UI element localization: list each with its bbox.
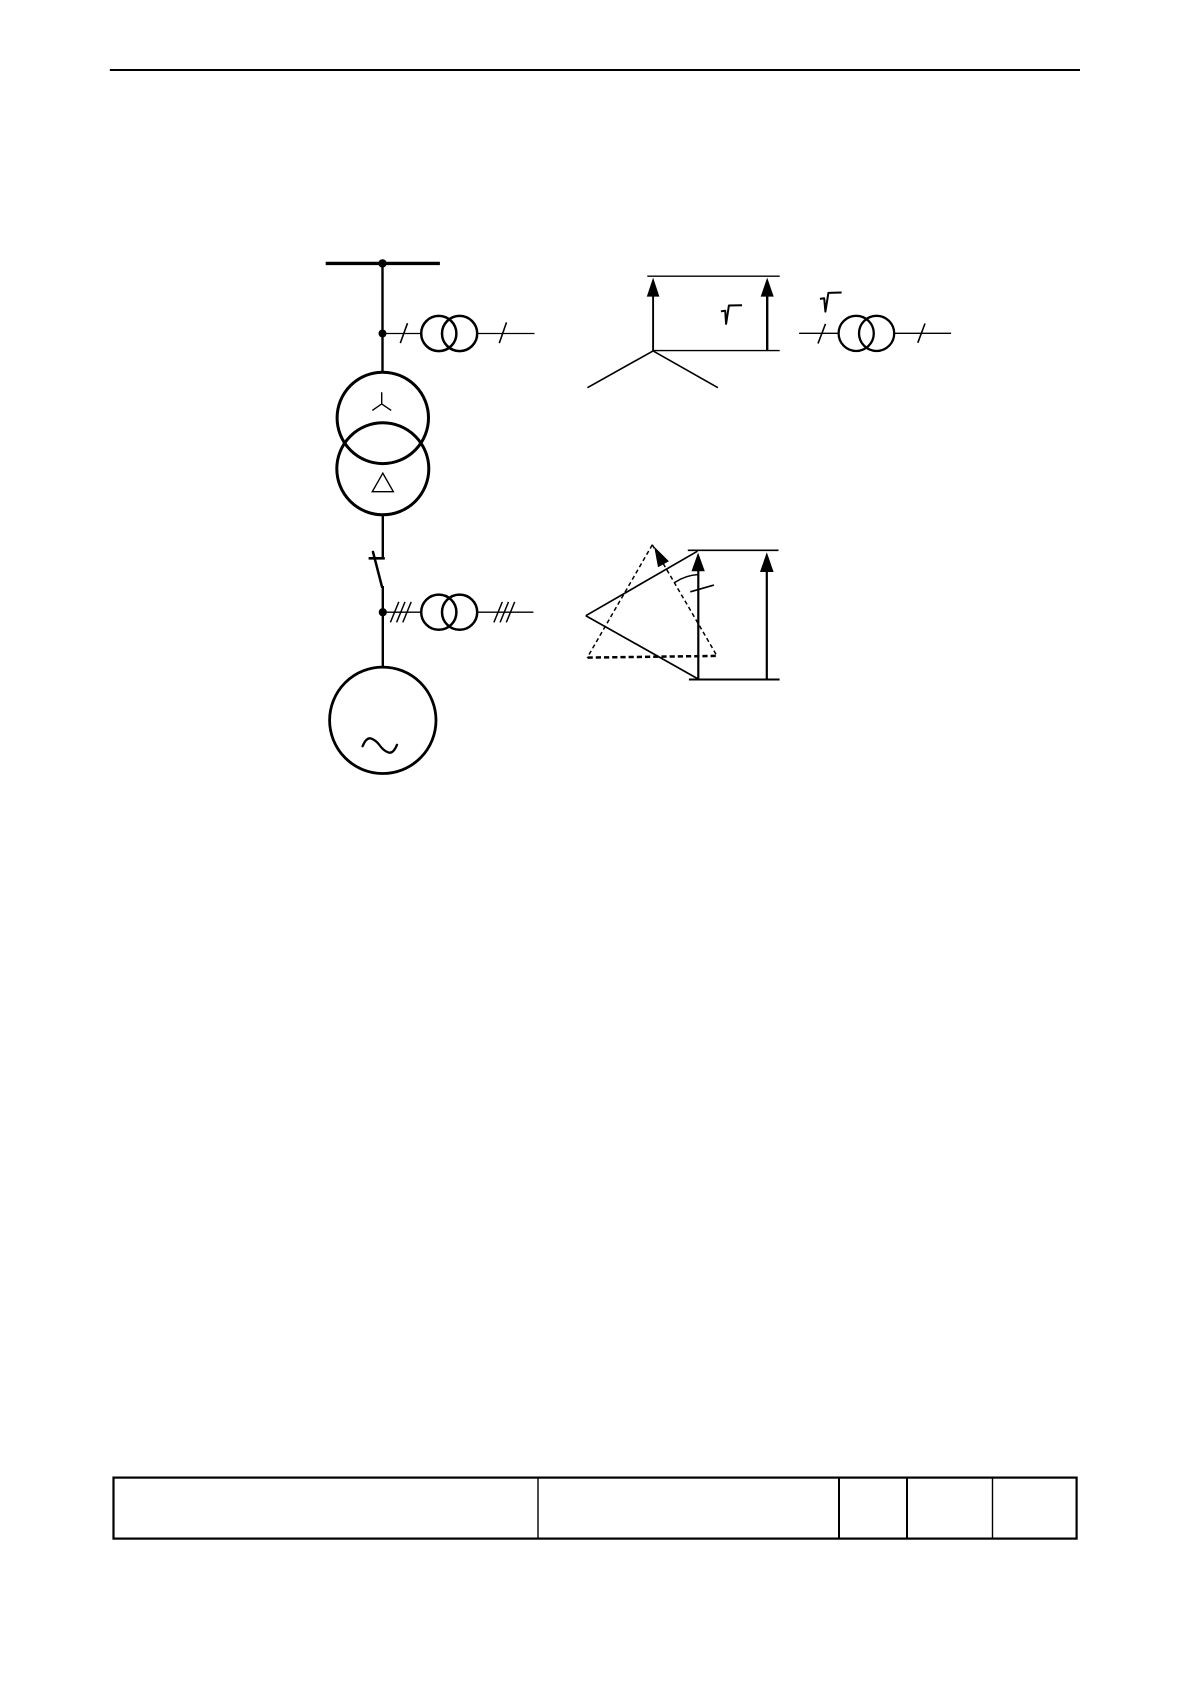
phasor fig2: angle arc — [675, 575, 699, 583]
table divider 4 — [992, 1478, 994, 1539]
phasor fig2: tick across arrow — [690, 585, 714, 592]
wye symbol — [372, 392, 391, 410]
phasor fig1: wye leg right — [653, 351, 718, 388]
aux CT slash right — [918, 324, 925, 343]
phasor fig2: dashed triangle edge right — [652, 545, 717, 656]
phasor fig2: left arrowhead — [692, 553, 705, 572]
transformer T1 delta winding — [337, 423, 429, 515]
slash HV left — [400, 323, 407, 343]
phasor fig1: left arrowhead — [647, 278, 660, 297]
generator G1 — [330, 667, 436, 773]
phasor fig2: dashed phasor arrowhead — [654, 547, 669, 568]
CT T1 HV circles — [421, 316, 456, 351]
phasor fig2: top reference line — [688, 549, 779, 551]
switch blade — [373, 552, 382, 587]
phasor fig1: right arrow shaft — [766, 290, 768, 350]
phasor fig1: top reference line — [647, 275, 779, 277]
delta symbol — [372, 473, 393, 492]
phasor fig2: right arrow shaft — [766, 565, 768, 679]
sine symbol — [363, 738, 397, 752]
phasor fig2: right arrowhead — [760, 552, 774, 572]
phasor fig2: solid triangle edge lower — [586, 616, 698, 679]
phasor fig1: right arrowhead — [761, 278, 774, 297]
phasor fig2: bottom reference line — [689, 679, 780, 681]
triple slash LV left — [390, 602, 411, 623]
wire switch to generator — [382, 586, 384, 666]
node: HV CT tap junction — [379, 330, 387, 338]
phasor fig1: bottom reference line — [653, 350, 780, 352]
aux CT circles — [839, 316, 874, 351]
phasor fig2: dashed triangle edge left — [587, 545, 652, 658]
node: busbar tap junction — [378, 259, 386, 267]
CT T2 LV circles — [421, 595, 456, 630]
phasor fig1: radical check mark — [721, 305, 742, 324]
aux CT radical check mark — [820, 293, 842, 312]
table divider 1 — [537, 1478, 539, 1539]
switch contact bar — [369, 557, 385, 560]
phasor fig1: left arrow shaft — [652, 290, 654, 351]
phasor fig1: wye leg left — [587, 351, 653, 388]
wire transformer to switch — [382, 515, 384, 558]
phasor fig2: dashed triangle edge bottom — [588, 656, 717, 658]
wire busbar to transformer — [381, 263, 383, 372]
header rule — [110, 69, 1080, 71]
aux CT slash left — [818, 324, 826, 344]
table divider 2 — [838, 1478, 840, 1539]
phasor fig2: solid triangle edge upper — [586, 551, 698, 616]
title block table — [114, 1478, 1077, 1539]
wire LV CT branch — [386, 611, 533, 613]
aux CT figure: wire — [799, 332, 951, 334]
transformer T1 wye winding — [337, 372, 428, 463]
node: LV CT tap junction — [379, 608, 387, 616]
triple slash LV right — [494, 602, 515, 623]
slash HV right — [499, 322, 506, 343]
wire HV CT branch — [386, 333, 535, 335]
table divider 3 — [906, 1478, 908, 1539]
busbar — [326, 262, 440, 265]
phasor fig2: left arrow shaft — [697, 565, 699, 679]
